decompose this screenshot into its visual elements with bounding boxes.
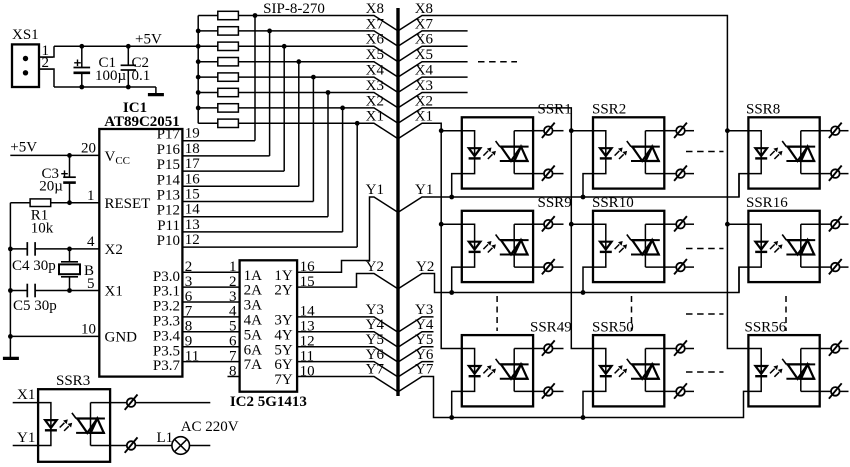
output terminal SSR49 bottom: [533, 390, 544, 392]
wire Y2 rail (right): [398, 267, 739, 292]
svg-text:Y1: Y1: [415, 182, 433, 198]
IC U1 AT89C2051 (IC1): [99, 129, 182, 377]
wire P3.3 to IC2 pin 4: [182, 316, 239, 318]
svg-text:Y6: Y6: [415, 347, 434, 363]
svg-text:Y1: Y1: [17, 430, 35, 446]
wire riser P12 to X3: [327, 93, 329, 217]
SSR internal output wiring: [800, 349, 802, 392]
resistor SIP element 1: [218, 11, 239, 19]
SSR internal LED (optocoupler input): [462, 224, 475, 267]
output terminal SSR3 bottom / lamp circuit: [110, 445, 127, 447]
resistor SIP element 3: [218, 42, 239, 50]
svg-text:P3.2: P3.2: [153, 299, 180, 315]
SSR internal output wiring: [513, 224, 515, 267]
SSR internal output wiring: [644, 131, 646, 174]
resistor SIP element 8: [218, 119, 239, 127]
svg-text:Y6: Y6: [366, 347, 385, 363]
capacitor C1 100u: [81, 46, 83, 67]
SSR internal LED (optocoupler input): [593, 131, 606, 174]
wire SSR col2 row3 to Y rail: [583, 391, 593, 417]
dashed continuation columns: [686, 151, 724, 153]
svg-text:5A: 5A: [244, 327, 263, 343]
wire 2Y to Y2 line: [297, 274, 398, 289]
dashed continuation rows: [631, 296, 633, 331]
svg-text:Y2: Y2: [366, 259, 384, 275]
solid-state relay SSR50: [593, 335, 664, 406]
svg-text:P11: P11: [157, 218, 180, 234]
ground (IC1): [3, 357, 19, 360]
wire P3.7 to IC2 pin 7: [182, 361, 239, 363]
solid-state relay SSR9: [462, 211, 533, 282]
resistor network common rail: [197, 16, 199, 124]
SSR internal triac: [631, 239, 660, 241]
svg-text:9: 9: [185, 334, 193, 350]
wire column 1 tap row 2: [441, 223, 462, 225]
svg-text:SSR10: SSR10: [592, 195, 634, 211]
svg-text:RESET: RESET: [105, 196, 151, 212]
SSR internal output wiring: [800, 131, 802, 174]
wire P3.5 to IC2 pin 6: [182, 346, 239, 348]
IC U2 5G1413 (IC2): [240, 260, 298, 391]
pin GND (10): [10, 335, 99, 337]
resistor SIP element 6: [218, 88, 239, 96]
wire SSR col3 row1 to Y rail: [739, 174, 748, 197]
junction X5/P14: [296, 59, 301, 64]
svg-text:AC 220V: AC 220V: [181, 419, 239, 435]
wire pin P15: [182, 170, 284, 172]
wire Y7 rail (row 3): [398, 377, 748, 418]
wire Y4 line: [297, 332, 398, 347]
svg-text:7Y: 7Y: [274, 372, 293, 388]
pin X1 (5): [10, 290, 99, 292]
resistor SIP element 5: [218, 73, 239, 81]
SSR internal light arrows: [483, 151, 488, 156]
solid-state relay SSR49: [462, 335, 533, 406]
resistor SIP element 7: [218, 104, 239, 112]
svg-text:3: 3: [185, 274, 193, 290]
resistor SIP element 4: [218, 58, 239, 66]
wire P3.2 to IC2 pin 3: [182, 301, 239, 303]
SSR internal output wiring: [800, 224, 802, 267]
junction X7/P16: [267, 29, 272, 34]
SSR internal triac: [631, 146, 660, 148]
SSR internal light arrows: [483, 369, 488, 374]
capacitor C5 30p: [26, 284, 28, 298]
SSR internal light arrows: [615, 244, 620, 249]
svg-text:P3.0: P3.0: [153, 269, 180, 285]
junction X2/P11: [340, 106, 345, 111]
wire pin P10: [182, 246, 357, 248]
SSR internal LED (optocoupler input): [748, 131, 761, 174]
junction X3/P12: [326, 90, 331, 95]
solid-state relay SSR16: [748, 211, 819, 282]
output terminal SSR8 top: [820, 130, 831, 132]
wire X7 row: [198, 31, 398, 46]
svg-text:2: 2: [185, 259, 193, 275]
svg-text:5Y: 5Y: [274, 342, 293, 358]
SSR internal triac: [631, 363, 660, 365]
svg-text:4: 4: [87, 234, 95, 250]
svg-text:10k: 10k: [31, 220, 54, 236]
svg-text:2A: 2A: [244, 283, 263, 299]
solid-state relay SSR1: [462, 117, 533, 188]
wire X3 stub (right): [398, 93, 468, 108]
svg-text:Y7: Y7: [415, 362, 434, 378]
SSR internal triac: [786, 146, 815, 148]
SSR internal LED (optocoupler input): [748, 349, 761, 392]
resistor SIP element 2: [218, 27, 239, 35]
SSR internal output wiring: [644, 224, 646, 267]
svg-text:Y4: Y4: [415, 317, 434, 333]
svg-text:4Y: 4Y: [274, 327, 293, 343]
output terminal SSR49 top: [533, 348, 544, 350]
svg-text:P3.7: P3.7: [153, 358, 181, 374]
output terminal SSR50 bottom: [664, 390, 676, 392]
output terminal SSR56 top: [820, 348, 831, 350]
svg-text:Y4: Y4: [366, 317, 385, 333]
SSR internal LED (optocoupler input): [462, 349, 475, 392]
output terminal SSR2 top: [664, 130, 676, 132]
svg-text:Y1: Y1: [366, 182, 384, 198]
SSR internal light arrows: [483, 244, 488, 249]
wire X1 row: [198, 123, 398, 138]
wire SSR col2 row2 to Y rail: [583, 267, 593, 292]
wire 1Y to Y1 line: [297, 197, 398, 272]
svg-text:XS1: XS1: [12, 27, 39, 43]
svg-text:L1: L1: [157, 430, 174, 446]
pin VCC (20): [10, 154, 99, 156]
dashed continuation rows: [785, 296, 787, 331]
pin RESET (1): [51, 202, 100, 204]
wire column 2 tap row 2: [571, 223, 593, 225]
wire pin P11: [182, 231, 342, 233]
SSR internal triac: [76, 418, 105, 420]
solid-state relay SSR2: [593, 117, 664, 188]
svg-text:19: 19: [185, 126, 200, 142]
lamp L1: [172, 437, 190, 455]
wire pin P12: [182, 216, 328, 218]
wire X6 row: [198, 46, 398, 61]
wire P3.4 to IC2 pin 5: [182, 331, 239, 333]
SSR internal triac: [786, 239, 815, 241]
output terminal SSR3 top: [110, 402, 127, 404]
svg-text:X1: X1: [366, 109, 384, 125]
svg-text:X4: X4: [366, 63, 385, 79]
svg-text:10: 10: [81, 322, 96, 338]
wire SSR col1 row2 to Y rail: [452, 267, 462, 292]
SSR internal LED (optocoupler input): [593, 349, 606, 392]
wire X1 feed to column 1: [398, 123, 462, 348]
wire X4 row: [198, 77, 398, 92]
wire riser P10 to X1: [356, 123, 358, 247]
svg-text:C5 30p: C5 30p: [13, 298, 57, 314]
svg-text:4A: 4A: [244, 313, 263, 329]
svg-text:SSR1: SSR1: [538, 102, 572, 118]
capacitor C2 0.1: [127, 46, 129, 65]
wire column 3 tap row 1: [727, 130, 748, 132]
wire X2 row: [198, 108, 398, 123]
svg-text:Y5: Y5: [415, 332, 433, 348]
wire column 3 tap row 2: [727, 223, 748, 225]
wire X1 input of SSR3: [13, 402, 38, 404]
SSR internal triac: [500, 363, 529, 365]
svg-text:7: 7: [229, 348, 237, 364]
wire X6 stub (right): [398, 46, 468, 61]
svg-text:6: 6: [185, 289, 193, 305]
svg-text:Y7: Y7: [366, 362, 385, 378]
output terminal SSR8 bottom: [820, 173, 831, 175]
svg-text:X3: X3: [366, 78, 384, 94]
svg-text:7A: 7A: [244, 357, 263, 373]
svg-text:SSR16: SSR16: [746, 195, 788, 211]
svg-text:5: 5: [229, 319, 237, 335]
wire X4 stub (right): [398, 77, 468, 92]
output terminal SSR10 bottom: [664, 266, 676, 268]
svg-text:6: 6: [229, 334, 237, 350]
wire X5 row: [198, 62, 398, 77]
svg-text:SSR2: SSR2: [592, 102, 626, 118]
svg-text:2Y: 2Y: [274, 283, 293, 299]
svg-text:13: 13: [185, 217, 200, 233]
pin 1 of XS1: [39, 46, 54, 57]
pin 8 of IC2 (GND): [228, 376, 240, 378]
solid-state relay SSR10: [593, 211, 664, 282]
SSR internal triac: [500, 146, 529, 148]
SSR internal output wiring: [513, 131, 515, 174]
svg-text:+5V: +5V: [135, 32, 162, 48]
svg-text:P3.3: P3.3: [153, 314, 180, 330]
wire 7Y to Y7 line: [297, 377, 398, 392]
wire +5V rail: [54, 45, 198, 47]
SSR internal triac: [500, 239, 529, 241]
wire SSR col1 row1 to Y rail: [452, 174, 462, 197]
output terminal SSR2 bottom: [664, 173, 676, 175]
svg-text:Y3: Y3: [366, 302, 384, 318]
svg-text:GND: GND: [105, 329, 138, 345]
svg-text:P10: P10: [157, 233, 180, 249]
svg-text:3A: 3A: [244, 298, 263, 314]
svg-text:8: 8: [229, 363, 237, 379]
pin 2 of XS1: [39, 69, 54, 87]
svg-text:SSR56: SSR56: [745, 320, 787, 336]
svg-text:X2: X2: [105, 242, 123, 258]
wire P3.0 to IC2 pin 1: [182, 271, 239, 273]
svg-text:X8: X8: [366, 1, 384, 17]
wire Y1 input of SSR3: [13, 445, 38, 447]
svg-text:P14: P14: [157, 172, 181, 188]
wire column 1 tap row 1: [441, 130, 462, 132]
svg-text:X7: X7: [366, 16, 385, 32]
wire SSR col1 row3 to Y rail: [452, 391, 462, 417]
svg-text:+5V: +5V: [10, 140, 37, 156]
svg-text:SSR50: SSR50: [592, 320, 634, 336]
output terminal SSR16 bottom: [820, 266, 831, 268]
SSR internal triac: [786, 363, 815, 365]
wire ground rail: [54, 86, 156, 88]
svg-text:P3.4: P3.4: [153, 328, 181, 344]
svg-text:X5: X5: [366, 47, 384, 63]
svg-text:P15: P15: [157, 157, 180, 173]
output terminal SSR1 bottom: [533, 173, 544, 175]
SSR internal output wiring: [513, 349, 515, 392]
svg-text:11: 11: [185, 348, 199, 364]
svg-text:1: 1: [87, 188, 95, 204]
wire P3.1 to IC2 pin 2: [182, 286, 239, 288]
SSR internal light arrows: [615, 151, 620, 156]
capacitor C4 30p: [26, 242, 28, 256]
svg-text:SSR9: SSR9: [538, 195, 572, 211]
svg-text:12: 12: [185, 232, 200, 248]
junction X4/P13: [311, 75, 316, 80]
svg-text:2: 2: [229, 274, 237, 290]
SSR internal LED (optocoupler input): [593, 224, 606, 267]
capacitor C3 20u: [67, 153, 72, 158]
svg-text:7: 7: [185, 304, 193, 320]
svg-text:SSR3: SSR3: [56, 373, 90, 389]
svg-text:0.1: 0.1: [132, 68, 151, 84]
wire SSR col2 row1 to Y rail: [583, 174, 593, 197]
svg-text:6Y: 6Y: [274, 357, 293, 373]
svg-text:Y3: Y3: [415, 302, 433, 318]
svg-text:18: 18: [185, 141, 200, 157]
wire riser P17 to X8: [254, 16, 256, 141]
wire Y6 line: [297, 362, 398, 377]
output terminal SSR16 top: [820, 223, 831, 225]
crystal B: [69, 249, 71, 262]
wire X8 row: [198, 16, 398, 31]
output terminal SSR56 bottom: [820, 390, 831, 392]
dashed continuation columns: [686, 248, 724, 250]
wire Y5 line: [297, 347, 398, 362]
wire column 2 tap row 1: [571, 130, 593, 132]
SSR internal light arrows: [770, 369, 775, 374]
wire riser P14 to X5: [298, 62, 300, 187]
output terminal SSR50 top: [664, 348, 676, 350]
svg-text:Y5: Y5: [366, 332, 384, 348]
dashed continuation X lines: [478, 61, 517, 63]
dashed continuation columns: [686, 371, 724, 373]
wire X2 feed to column 2: [398, 108, 593, 349]
junction X8/P17: [253, 13, 258, 18]
dashed continuation rows: [496, 296, 498, 331]
pin X2 (4): [10, 248, 99, 250]
wire riser P16 to X7: [269, 31, 271, 156]
wire pin P16: [182, 155, 269, 157]
svg-text:1Y: 1Y: [274, 268, 293, 284]
svg-text:X1: X1: [105, 284, 123, 300]
svg-text:3: 3: [229, 289, 237, 305]
svg-text:3Y: 3Y: [274, 313, 293, 329]
svg-text:5: 5: [87, 276, 95, 292]
svg-text:8: 8: [185, 319, 193, 335]
wire X3 row: [198, 93, 398, 108]
dashed continuation columns: [686, 313, 724, 315]
svg-text:Y2: Y2: [416, 259, 434, 275]
svg-text:X8: X8: [415, 1, 433, 17]
SSR internal LED (optocoupler input): [38, 403, 51, 446]
resistor R1 10k: [10, 202, 30, 204]
wire pin P13: [182, 201, 313, 203]
svg-text:X2: X2: [366, 93, 384, 109]
svg-text:C4 30p: C4 30p: [12, 258, 56, 274]
junction X6/P15: [282, 44, 287, 49]
svg-text:P17: P17: [157, 127, 181, 143]
wire X5 stub (right): [398, 62, 468, 77]
svg-text:17: 17: [185, 156, 201, 172]
connector XS1: [12, 44, 39, 87]
svg-text:P13: P13: [157, 188, 180, 204]
wire riser P13 to X4: [312, 77, 314, 201]
svg-text:SSR49: SSR49: [530, 320, 572, 336]
SSR internal output wiring: [644, 349, 646, 392]
svg-text:6A: 6A: [244, 342, 263, 358]
svg-text:P12: P12: [157, 203, 180, 219]
output terminal SSR9 bottom: [533, 266, 544, 268]
output terminal SSR10 top: [664, 223, 676, 225]
wire Y3 line: [297, 317, 398, 332]
solid-state relay SSR8: [748, 117, 819, 188]
SSR internal light arrows: [770, 151, 775, 156]
wire pin P14: [182, 185, 298, 187]
svg-text:X1: X1: [17, 387, 35, 403]
wire X7 stub (right): [398, 31, 468, 46]
svg-text:IC2 5G1413: IC2 5G1413: [230, 394, 307, 410]
wire Y1 rail (right): [398, 174, 739, 213]
svg-text:20: 20: [81, 141, 96, 157]
wire left ground vertical: [9, 203, 11, 358]
bus (X/Y wire harness): [396, 8, 399, 396]
output terminal SSR9 top: [533, 223, 544, 225]
svg-text:P3.5: P3.5: [153, 343, 180, 359]
output terminal SSR1 top: [533, 130, 544, 132]
SSR internal light arrows: [615, 369, 620, 374]
SSR internal LED (optocoupler input): [462, 131, 475, 174]
svg-text:16: 16: [185, 171, 201, 187]
svg-text:1A: 1A: [244, 268, 263, 284]
SSR internal light arrows: [770, 244, 775, 249]
svg-text:P3.1: P3.1: [153, 284, 180, 300]
wire X8 feed to column 3: [398, 16, 748, 349]
wire SSR col3 row2 to Y rail: [739, 267, 748, 292]
solid-state relay SSR56: [748, 335, 819, 406]
svg-text:SSR8: SSR8: [746, 102, 780, 118]
svg-text:1: 1: [229, 259, 237, 275]
wire riser P15 to X6: [283, 46, 285, 171]
svg-text:X6: X6: [366, 32, 385, 48]
svg-text:14: 14: [185, 202, 201, 218]
svg-text:P16: P16: [157, 142, 181, 158]
SSR internal light arrows: [60, 423, 65, 428]
svg-text:4: 4: [229, 304, 237, 320]
ground (power input): [155, 87, 157, 94]
junction X1/P10: [355, 121, 360, 126]
svg-text:20µ: 20µ: [39, 179, 63, 195]
SSR internal LED (optocoupler input): [748, 224, 761, 267]
wire pin P17: [182, 140, 255, 142]
solid-state relay SSR3 (example): [38, 389, 110, 462]
wire riser P11 to X2: [342, 108, 344, 232]
svg-text:15: 15: [185, 187, 200, 203]
SSR internal output wiring: [90, 403, 92, 446]
